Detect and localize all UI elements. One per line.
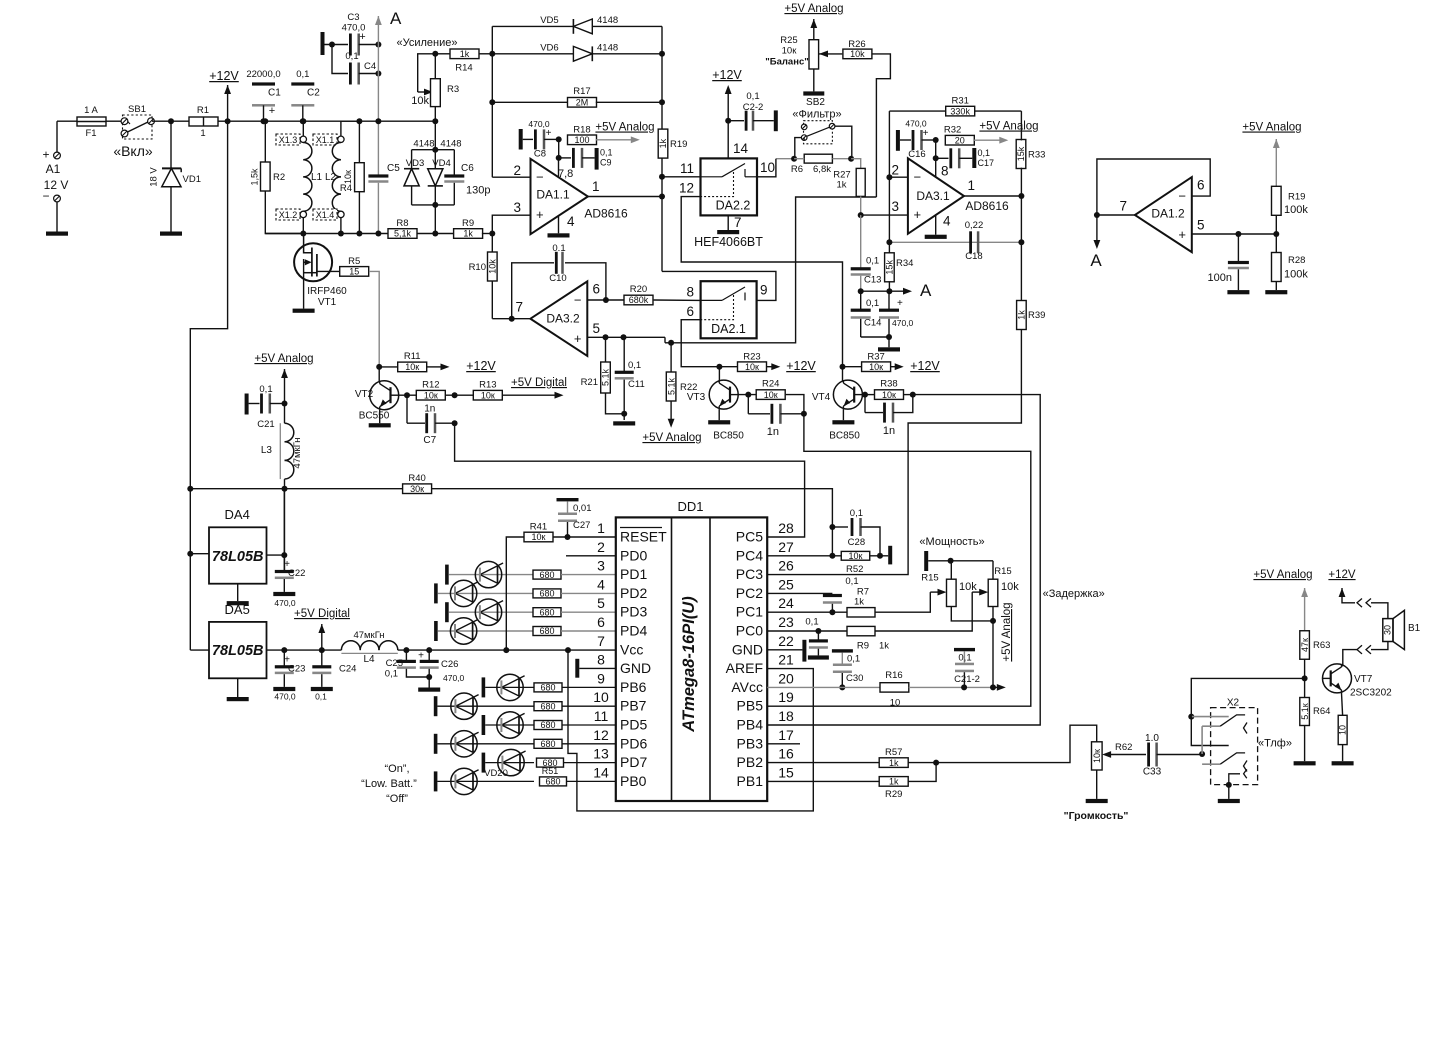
svg-text:15: 15 <box>349 267 359 277</box>
resistor 10 VT7 <box>1338 693 1348 761</box>
svg-text:C33: C33 <box>1143 767 1162 778</box>
svg-text:+5V Digital: +5V Digital <box>294 608 350 620</box>
resistor 680 PD7 <box>537 758 616 768</box>
diode VD6 4148 <box>492 43 665 62</box>
resistor R8 5,1k <box>388 218 454 239</box>
svg-text:23: 23 <box>778 614 794 630</box>
svg-text:10: 10 <box>760 160 775 175</box>
svg-text:AD8616: AD8616 <box>965 199 1009 213</box>
svg-text:3: 3 <box>597 558 605 574</box>
svg-text:“On”,: “On”, <box>384 763 409 775</box>
svg-text:«Мощность»: «Мощность» <box>919 536 984 548</box>
svg-text:0.1: 0.1 <box>552 243 565 254</box>
resistor R51 680 <box>540 766 616 787</box>
ground DA1.1 pin4 <box>548 233 570 237</box>
resistor R34 15k <box>885 242 914 294</box>
svg-text:HEF4066BT: HEF4066BT <box>694 235 763 249</box>
svg-text:−: − <box>1178 189 1186 204</box>
ground DA5 <box>227 697 249 701</box>
DA3.2 pin5 wire <box>587 334 674 346</box>
resistor R22 5.1k <box>666 343 697 428</box>
svg-text:6: 6 <box>593 282 601 297</box>
svg-text:10: 10 <box>1338 725 1348 735</box>
resistor 680 PD6 <box>534 739 616 749</box>
svg-text:680: 680 <box>540 739 555 749</box>
fuse F1 1A <box>77 105 121 139</box>
svg-text:0,22: 0,22 <box>965 220 984 231</box>
svg-text:2: 2 <box>597 539 605 555</box>
wire SB1 to R1 <box>168 118 189 124</box>
svg-text:VD6: VD6 <box>540 43 558 54</box>
svg-text:R40: R40 <box>408 473 425 484</box>
resistor R10 10k <box>469 234 498 319</box>
svg-text:C22: C22 <box>288 568 305 579</box>
svg-text:5: 5 <box>1197 218 1205 233</box>
capacitor C14 0,1 <box>851 291 889 337</box>
potentiometer R3 10k <box>411 51 459 124</box>
svg-text:5.1k: 5.1k <box>601 368 611 386</box>
svg-text:«Вкл»: «Вкл» <box>113 143 153 159</box>
capacitor C5 <box>368 118 400 236</box>
svg-text:PD4: PD4 <box>620 623 647 639</box>
svg-text:R31: R31 <box>951 96 968 107</box>
svg-text:+12V: +12V <box>466 359 496 373</box>
ground plate GND22 <box>767 640 806 662</box>
capacitor C2 0,1 <box>291 69 320 124</box>
svg-text:+5V Analog: +5V Analog <box>1242 122 1301 134</box>
resistor R2 1,5k <box>250 118 304 233</box>
resistor R20 680k <box>606 284 701 305</box>
svg-text:16: 16 <box>778 746 794 762</box>
labels On LowBatt Off <box>361 763 417 805</box>
wire VT4 node to PB4 <box>767 395 1040 725</box>
svg-text:1 A: 1 A <box>84 105 98 116</box>
ground A1 <box>46 232 68 236</box>
svg-text:1: 1 <box>200 128 205 139</box>
svg-text:7: 7 <box>597 633 605 649</box>
LED PD5 <box>482 712 534 738</box>
wire PC1 R7 <box>767 587 930 618</box>
resistor R24 10k <box>738 379 804 414</box>
capacitor C9 0,1 <box>556 139 613 169</box>
wire R15 top <box>928 558 993 579</box>
svg-text:680: 680 <box>540 701 555 711</box>
svg-text:R9: R9 <box>857 641 869 652</box>
svg-text:BC850: BC850 <box>829 431 860 442</box>
capacitor C25 0,1 <box>385 650 429 679</box>
ground VD1 <box>160 232 182 236</box>
svg-text:+: + <box>923 128 929 139</box>
wire to R62 <box>936 725 1097 762</box>
svg-text:10к: 10к <box>343 170 353 184</box>
capacitor C8 470,0 <box>519 119 562 160</box>
svg-text:1: 1 <box>968 178 976 193</box>
svg-text:+: + <box>42 148 49 162</box>
resistor R29 1k <box>767 763 936 800</box>
resistor R41 10k <box>506 522 616 651</box>
resistor R32 20 <box>944 125 1008 146</box>
LED HL PD3 <box>445 599 533 625</box>
svg-text:9: 9 <box>760 283 768 298</box>
potentiometer R25 10k Balans <box>765 35 818 91</box>
svg-text:«Фильтр»: «Фильтр» <box>792 109 841 121</box>
svg-text:R57: R57 <box>885 747 902 758</box>
svg-text:PC5: PC5 <box>736 529 763 545</box>
svg-text:1.0: 1.0 <box>1145 733 1159 744</box>
svg-text:R32: R32 <box>944 125 961 136</box>
svg-text:C10: C10 <box>549 273 566 284</box>
svg-text:+5V Analog: +5V Analog <box>642 432 701 444</box>
svg-text:C23: C23 <box>288 664 305 675</box>
capacitor C22 470,0 <box>267 489 306 608</box>
svg-text:470,0: 470,0 <box>443 673 465 683</box>
svg-text:+12V: +12V <box>712 68 742 82</box>
svg-text:R26: R26 <box>848 39 865 50</box>
svg-text:L1: L1 <box>311 172 323 183</box>
resistor R5 15 <box>340 256 380 367</box>
coil L1 <box>303 143 322 212</box>
svg-text:10к: 10к <box>782 46 798 57</box>
inductor L3 47mkGn <box>261 404 303 571</box>
svg-text:C1: C1 <box>268 88 281 99</box>
svg-text:R7: R7 <box>857 587 869 598</box>
svg-text:PD5: PD5 <box>620 717 647 733</box>
wire pin11 <box>662 176 701 178</box>
svg-text:−: − <box>914 170 922 185</box>
resistor R17 2M <box>492 86 665 108</box>
svg-text:470,0: 470,0 <box>892 318 914 328</box>
svg-text:R29: R29 <box>885 789 902 800</box>
net +12V R37 <box>910 359 940 373</box>
resistor 680 HL PD2 <box>533 589 616 599</box>
svg-text:1k: 1k <box>836 180 846 191</box>
svg-text:C7: C7 <box>423 435 436 446</box>
svg-text:C6: C6 <box>461 163 474 174</box>
svg-text:L2: L2 <box>325 172 337 183</box>
resistor R14 1k <box>450 49 492 74</box>
LED HL PD1 <box>445 561 533 587</box>
svg-text:2SC3202: 2SC3202 <box>1350 688 1392 699</box>
svg-text:R10: R10 <box>469 262 486 273</box>
svg-text:PC0: PC0 <box>736 623 763 639</box>
svg-text:47мкГн: 47мкГн <box>292 437 303 468</box>
svg-text:R25: R25 <box>780 35 797 46</box>
svg-text:R37: R37 <box>867 352 884 363</box>
svg-text:+5V Analog: +5V Analog <box>1001 602 1013 661</box>
svg-text:19: 19 <box>778 689 794 705</box>
svg-text:470,0: 470,0 <box>905 119 927 129</box>
LED PB6 <box>482 674 534 700</box>
svg-text:0,1: 0,1 <box>385 669 398 680</box>
main +12V rail <box>228 120 436 122</box>
svg-text:R24: R24 <box>762 379 779 390</box>
capacitor C21 0,1 <box>245 384 288 430</box>
svg-text:25: 25 <box>778 576 794 592</box>
svg-text:AREF: AREF <box>726 660 763 676</box>
switch SB2 Filtr <box>792 109 841 159</box>
wire PB3 stub <box>767 743 800 745</box>
resistor R19 1k <box>658 129 687 271</box>
svg-text:0,1: 0,1 <box>746 91 759 102</box>
svg-text:DA1.2: DA1.2 <box>1151 207 1185 221</box>
svg-text:VD20: VD20 <box>484 768 508 779</box>
svg-text:PB0: PB0 <box>620 773 647 789</box>
capacitor C27 0,01 <box>557 498 592 537</box>
svg-text:L4: L4 <box>363 654 375 665</box>
svg-text:130p: 130p <box>466 185 490 197</box>
wire pin12 to VT4 collector <box>681 197 842 367</box>
left feedback bus <box>489 26 495 177</box>
coil L2 <box>325 143 341 212</box>
resistor R31 330k <box>889 96 1021 117</box>
net +12V R23 <box>786 359 816 373</box>
svg-text:PC1: PC1 <box>736 604 763 620</box>
svg-text:470,0: 470,0 <box>274 692 296 702</box>
svg-text:+: + <box>359 31 365 43</box>
svg-text:B1: B1 <box>1408 623 1421 634</box>
svg-text:24: 24 <box>778 595 794 611</box>
jack contact 1 <box>1202 715 1247 734</box>
capacitor C33 1.0 <box>1143 733 1202 778</box>
svg-text:C21-2: C21-2 <box>954 674 980 685</box>
svg-text:«Задержка»: «Задержка» <box>1043 588 1105 600</box>
svg-text:“Off”: “Off” <box>386 793 408 805</box>
svg-text:+5V Analog: +5V Analog <box>254 353 313 365</box>
svg-text:30к: 30к <box>410 484 424 494</box>
svg-text:A: A <box>1090 251 1102 270</box>
svg-text:C13: C13 <box>864 275 881 286</box>
resistor R11 10k <box>379 351 449 372</box>
resistor R4 10k <box>340 121 364 236</box>
ground VT7 <box>1332 761 1354 765</box>
svg-text:4: 4 <box>567 214 575 229</box>
node A arrow right <box>861 281 932 300</box>
svg-text:15k: 15k <box>1016 146 1026 161</box>
svg-text:47мкГн: 47мкГн <box>353 630 384 641</box>
connector X2 <box>1188 698 1257 785</box>
svg-text:10к: 10к <box>764 390 778 400</box>
svg-text:5: 5 <box>597 595 605 611</box>
svg-text:+: + <box>914 207 922 222</box>
resistor R26 10k <box>819 39 890 197</box>
svg-text:AD8616: AD8616 <box>584 207 628 221</box>
svg-text:R64: R64 <box>1313 706 1330 717</box>
ground plate R15 <box>924 551 928 571</box>
ground 100n <box>1227 290 1249 294</box>
svg-text:18: 18 <box>778 708 794 724</box>
net +12V speaker <box>1328 569 1356 603</box>
resistor R1 1 <box>189 105 228 139</box>
svg-text:17: 17 <box>778 727 794 743</box>
svg-text:5,1k: 5,1k <box>394 229 412 239</box>
svg-text:12: 12 <box>593 727 609 743</box>
svg-text:0,1: 0,1 <box>345 51 358 62</box>
svg-text:DA2.1: DA2.1 <box>711 322 746 336</box>
svg-text:3: 3 <box>513 200 521 215</box>
bottom rail wire <box>265 233 388 235</box>
svg-text:R3: R3 <box>447 84 459 95</box>
svg-text:1k: 1k <box>879 641 889 652</box>
svg-text:78L05B: 78L05B <box>212 643 264 659</box>
svg-text:R9: R9 <box>462 218 474 229</box>
resistor R21 5.1k <box>581 337 628 417</box>
net +5V Analog R63 <box>1253 569 1312 631</box>
svg-text:X1.2: X1.2 <box>279 210 298 220</box>
svg-text:10к: 10к <box>882 390 896 400</box>
capacitor C1 22000,0 <box>246 69 281 124</box>
svg-text:VT3: VT3 <box>687 392 706 403</box>
label VD20 <box>484 768 508 779</box>
wire PC4 <box>767 553 841 559</box>
svg-text:100: 100 <box>574 135 589 145</box>
wire VT3 node to PB5 <box>767 414 1031 706</box>
jack contact 3 <box>1226 769 1247 788</box>
capacitor 1n VT4 <box>865 395 913 437</box>
svg-text:4: 4 <box>943 214 951 229</box>
ground plate GND8 <box>575 659 616 678</box>
svg-text:680: 680 <box>539 589 554 599</box>
svg-text:PB6: PB6 <box>620 679 647 695</box>
svg-text:0,1: 0,1 <box>847 654 860 665</box>
capacitor C23 470,0 <box>274 650 305 701</box>
svg-text:R8: R8 <box>396 218 408 229</box>
svg-text:28: 28 <box>778 520 794 536</box>
svg-text:−: − <box>574 293 582 308</box>
VD3-VD4 rails <box>412 121 455 236</box>
wire PC2 stub <box>767 592 832 594</box>
LED PB7 <box>434 693 534 719</box>
capacitor C7 1n <box>407 395 458 446</box>
capacitor C24 0,1 <box>312 650 356 701</box>
svg-text:X1.1: X1.1 <box>316 135 335 145</box>
potentiometer R15 right 10k <box>972 566 1019 687</box>
svg-text:PB3: PB3 <box>737 735 764 751</box>
label Zaderzhka <box>1043 588 1105 600</box>
svg-text:R39: R39 <box>1028 310 1045 321</box>
ground SB2 <box>803 91 825 108</box>
svg-text:"Громкость": "Громкость" <box>1064 810 1129 822</box>
svg-text:C27: C27 <box>573 520 590 531</box>
svg-text:C9: C9 <box>600 158 612 168</box>
regulator DA5 78L05B <box>190 602 266 697</box>
svg-text:R41: R41 <box>530 522 547 533</box>
svg-text:10k: 10k <box>1001 581 1019 593</box>
svg-text:13: 13 <box>593 746 609 762</box>
svg-text:21: 21 <box>778 652 794 668</box>
svg-text:VT2: VT2 <box>355 389 374 400</box>
wire DA2.2 pin10 <box>757 159 776 177</box>
svg-text:BC550: BC550 <box>359 411 390 422</box>
svg-text:“Low. Batt.”: “Low. Batt.” <box>361 778 417 790</box>
svg-text:47к: 47к <box>1300 638 1310 652</box>
svg-text:7: 7 <box>1119 199 1127 214</box>
svg-text:0,1: 0,1 <box>315 692 327 702</box>
svg-text:R21: R21 <box>581 377 598 388</box>
svg-text:1: 1 <box>592 179 600 194</box>
svg-text:4: 4 <box>597 576 605 592</box>
svg-text:PD6: PD6 <box>620 735 647 751</box>
net +5V Analog L3 <box>254 353 313 404</box>
jack contact 2 <box>1199 726 1247 771</box>
svg-text:22000,0: 22000,0 <box>246 69 280 80</box>
resistor R6 6,8k <box>776 126 854 175</box>
svg-text:R18: R18 <box>573 125 590 136</box>
svg-text:10к: 10к <box>869 362 883 372</box>
svg-text:PD2: PD2 <box>620 585 647 601</box>
svg-text:1k: 1k <box>1017 310 1027 320</box>
switch SB1 Vkl <box>113 104 171 159</box>
svg-text:10к: 10к <box>849 551 863 561</box>
svg-text:VD1: VD1 <box>183 174 201 185</box>
capacitor C28 0,1 <box>832 508 880 556</box>
label Moschnost <box>919 536 984 548</box>
svg-text:7,8: 7,8 <box>558 168 573 180</box>
svg-text:«Тлф»: «Тлф» <box>1258 738 1292 750</box>
svg-text:PB2: PB2 <box>737 754 764 770</box>
svg-text:27: 27 <box>778 539 794 555</box>
ground R62 <box>1064 799 1129 822</box>
wire PD0 stub <box>566 555 616 557</box>
op-amp DA1.2 <box>1094 159 1210 252</box>
svg-text:10: 10 <box>593 689 609 705</box>
svg-text:X1.4: X1.4 <box>316 210 335 220</box>
svg-text:R2: R2 <box>273 172 285 183</box>
svg-text:+: + <box>897 298 903 309</box>
svg-text:R5: R5 <box>348 256 360 267</box>
svg-text:14: 14 <box>733 141 749 156</box>
ground C22 <box>273 592 295 596</box>
svg-text:R23: R23 <box>743 352 760 363</box>
svg-text:C24: C24 <box>339 664 356 675</box>
svg-text:C26: C26 <box>441 659 458 670</box>
resistor R39 1k <box>767 196 1045 575</box>
resistor R52 10k <box>841 551 888 575</box>
plug chevrons top <box>1357 599 1388 619</box>
svg-text:R28: R28 <box>1288 255 1305 266</box>
svg-text:+: + <box>1178 227 1186 242</box>
ground DA2.2 pin7 <box>694 215 763 249</box>
transistor VT1 IRFP460 <box>294 234 347 309</box>
svg-text:1: 1 <box>597 520 605 536</box>
svg-text:7: 7 <box>515 300 523 315</box>
svg-text:X2: X2 <box>1227 698 1240 709</box>
svg-text:PB4: PB4 <box>737 717 764 733</box>
svg-text:+5V Analog: +5V Analog <box>1253 569 1312 581</box>
svg-text:15: 15 <box>778 764 794 780</box>
svg-text:680: 680 <box>539 607 554 617</box>
capacitor C10 0.1 <box>509 243 609 322</box>
capacitor 100n <box>1208 234 1249 290</box>
svg-text:DA1.1: DA1.1 <box>536 188 570 202</box>
capacitor C26 470,0 <box>418 650 464 687</box>
ground C14 <box>878 347 900 351</box>
svg-text:5.1к: 5.1к <box>1300 703 1310 720</box>
resistor R23 10k <box>719 352 780 372</box>
net +5V Digital arrow <box>294 608 350 650</box>
resistor R13 10k <box>473 380 563 401</box>
svg-text:PD3: PD3 <box>620 604 647 620</box>
capacitor 1n VT3 <box>748 395 807 438</box>
capacitor C2-2 0,1 <box>728 91 778 131</box>
regulator DA4 78L05B <box>187 507 266 601</box>
svg-text:26: 26 <box>778 558 794 574</box>
transistor VT2 BC550 <box>355 367 399 423</box>
capacitor C11 0,1 <box>615 337 645 420</box>
svg-text:1n: 1n <box>424 404 435 415</box>
connector X1.2 <box>276 209 306 237</box>
transistor VT3 BC850 <box>687 367 744 442</box>
resistor R37 10k <box>843 352 904 372</box>
